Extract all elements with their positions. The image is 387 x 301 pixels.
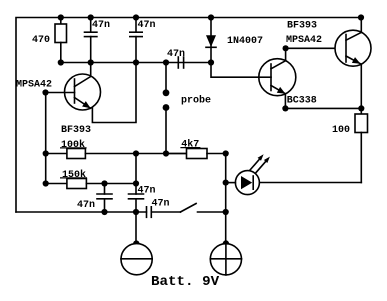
wire probe lower	[165, 108, 167, 154]
node LED anode	[223, 180, 229, 186]
node Q2 emitter row	[282, 105, 288, 111]
transistor Q3 top-right	[335, 18, 371, 109]
node R100 top	[358, 105, 364, 111]
transistor Q2 BC338	[259, 48, 296, 108]
diode 1N4007	[206, 18, 216, 63]
node right column switch	[223, 209, 229, 215]
svg-text:47n: 47n	[92, 20, 110, 31]
wire probe upper	[165, 63, 167, 93]
svg-text:probe: probe	[181, 95, 211, 107]
svg-text:47n: 47n	[152, 199, 170, 210]
svg-text:100k: 100k	[61, 139, 85, 151]
node row3-probe	[163, 150, 169, 156]
svg-text:BF393: BF393	[287, 21, 317, 32]
node rail1-C1	[88, 14, 94, 20]
battery terminal plus	[210, 244, 241, 275]
wire D1 to Q2 base	[211, 63, 259, 78]
node rail2-C1	[88, 59, 94, 65]
node rail2-C2	[133, 59, 139, 65]
node bias row4	[43, 180, 49, 186]
resistor 100k	[46, 149, 187, 159]
node rail1-Q3	[358, 14, 364, 20]
wire base bias column	[45, 93, 47, 184]
switch	[180, 204, 225, 213]
battery terminal minus	[121, 244, 152, 275]
wire R100 to LED cathode	[259, 182, 361, 184]
wire rail2	[61, 62, 211, 64]
resistor 4k7	[166, 149, 226, 159]
node row4-capA	[101, 180, 107, 186]
wire Q2 collector to Q3 base	[286, 47, 346, 49]
transistor Q1 BF393	[46, 63, 101, 111]
wire emitter row	[285, 107, 361, 109]
node probe lower terminal	[163, 104, 170, 111]
node row3-capB	[133, 150, 139, 156]
capacitor 47n C2	[130, 18, 142, 63]
node bottom capA	[101, 209, 107, 215]
svg-text:1N4007: 1N4007	[227, 36, 263, 47]
node battery1 top	[133, 240, 139, 246]
resistor 470	[55, 18, 67, 63]
wire battery1 stub	[135, 212, 137, 244]
node row4-capB	[133, 180, 139, 186]
wire right column	[225, 154, 227, 245]
node Q1 base corner	[42, 89, 48, 95]
svg-text:470: 470	[32, 35, 50, 46]
node battery2 top	[223, 240, 229, 246]
svg-text:MPSA42: MPSA42	[16, 80, 52, 91]
node bottom capB battery1	[133, 209, 139, 215]
wire Q1 emitter to rail2	[92, 63, 136, 123]
capacitor 47n B	[129, 154, 144, 213]
node rail2-R470	[58, 59, 64, 65]
svg-text:150k: 150k	[62, 169, 86, 181]
node bias row3	[43, 150, 49, 156]
node rail1-D1	[208, 14, 214, 20]
capacitor 47n C	[147, 207, 181, 218]
svg-text:BC338: BC338	[287, 95, 317, 106]
wire left border	[16, 18, 361, 213]
node Q2 collector / Q3 base	[283, 45, 289, 51]
resistor 100	[355, 108, 368, 182]
capacitor 47n coupling on rail2	[178, 57, 183, 68]
node rail2-probe	[163, 59, 169, 65]
node 4k7 right	[223, 150, 229, 156]
svg-text:47n: 47n	[77, 200, 95, 211]
svg-text:47n: 47n	[167, 49, 185, 60]
node rail1-R470	[58, 14, 64, 20]
resistor 150k	[46, 179, 136, 189]
svg-text:BF393: BF393	[61, 125, 91, 136]
wire bottom row	[16, 211, 146, 213]
node rail2-D1	[208, 59, 214, 65]
svg-text:47n: 47n	[138, 20, 156, 31]
svg-text:47n: 47n	[138, 186, 156, 197]
capacitor 47n C1	[85, 18, 97, 63]
LED	[226, 154, 270, 194]
svg-text:MPSA42: MPSA42	[286, 35, 322, 46]
svg-text:4k7: 4k7	[181, 138, 199, 150]
capacitor 47n A	[97, 184, 112, 213]
node probe upper terminal	[163, 89, 170, 96]
node rail1-C2	[133, 14, 139, 20]
svg-text:Batt. 9V: Batt. 9V	[151, 274, 220, 290]
svg-text:100: 100	[332, 125, 350, 136]
